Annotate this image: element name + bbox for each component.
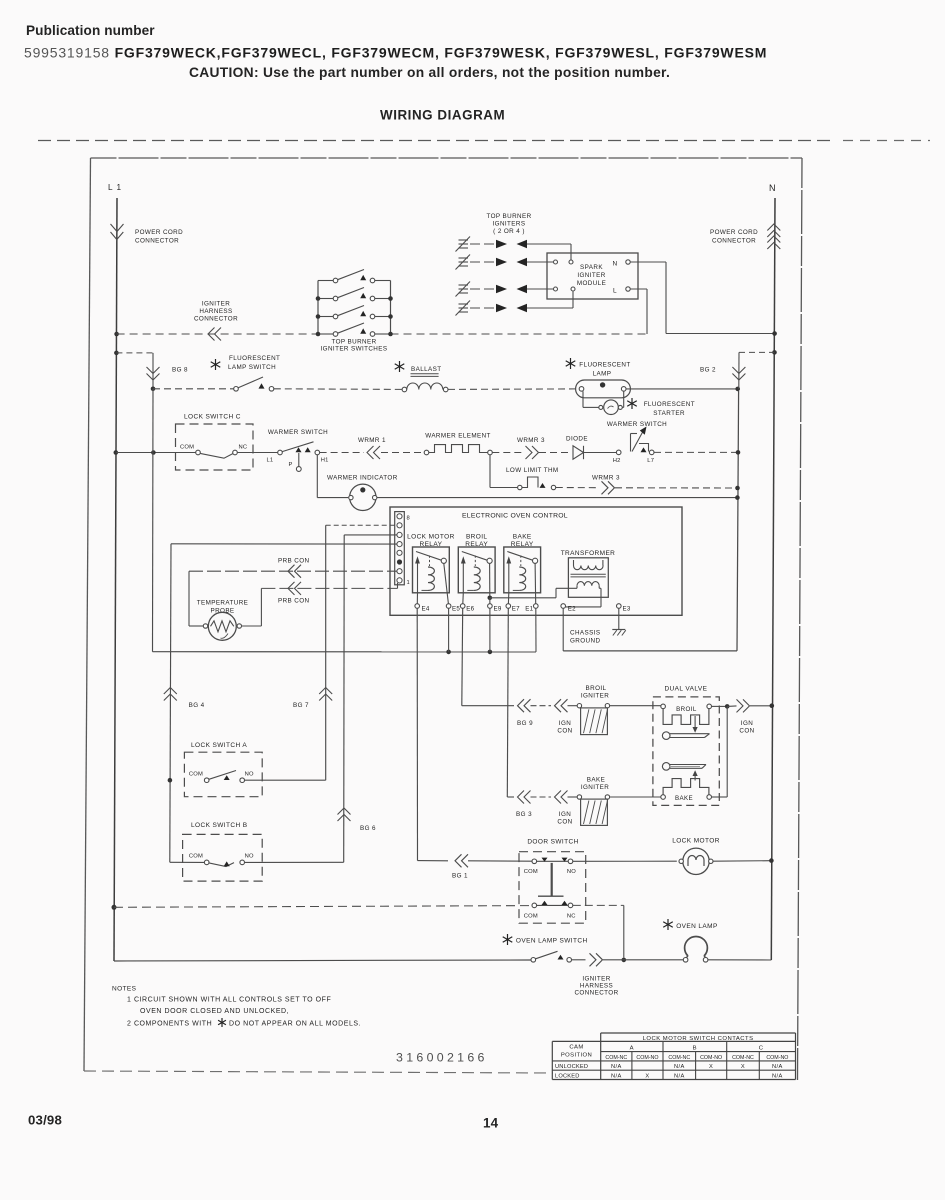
svg-text:OVEN LAMP: OVEN LAMP [676, 923, 718, 930]
wire switch to igniter harness connector [572, 959, 586, 961]
wire BG8 branch horizontal (dashed) [116, 352, 153, 354]
svg-text:POWER CORD: POWER CORD [710, 229, 758, 236]
svg-text:WARMER ELEMENT: WARMER ELEMENT [425, 433, 491, 440]
svg-text:P: P [289, 462, 293, 468]
wire bake relay contact to E1 [534, 563, 537, 603]
svg-text:DIODE: DIODE [566, 436, 588, 443]
svg-text:COM-NO: COM-NO [636, 1055, 658, 1061]
transformer T1 box [568, 558, 608, 598]
junction lock motor row x N bus [769, 858, 774, 863]
svg-text:PRB CON: PRB CON [278, 558, 310, 565]
broil valve actuator arrow [694, 716, 696, 728]
dual valve broil terminals [661, 704, 666, 709]
svg-text:LOW LIMIT THM: LOW LIMIT THM [506, 467, 559, 474]
wire N return vertical x=737.5 [737, 391, 739, 651]
svg-text:BG 2: BG 2 [700, 367, 716, 374]
svg-text:BG 6: BG 6 [360, 825, 376, 832]
svg-text:HARNESS: HARNESS [580, 983, 613, 990]
broil relay coil [474, 567, 480, 590]
wire transformer lead right [598, 586, 600, 589]
warmer element heater [424, 450, 429, 455]
junction BG8 line x lock switch C row [151, 450, 156, 455]
svg-text:Publication number: Publication number [26, 23, 155, 38]
terminal E7 [506, 604, 511, 609]
spark gap 4 [470, 307, 495, 309]
connector PRB CON upper [288, 565, 295, 578]
svg-text:FLUORESCENT: FLUORESCENT [229, 355, 280, 362]
top dashed separator line [38, 140, 833, 142]
bake relay coil [519, 567, 525, 590]
wire L1 bottom run to oven lamp switch [114, 960, 531, 961]
door switch mechanical link [551, 863, 553, 896]
svg-text:E5: E5 [452, 606, 460, 613]
svg-text:PROBE: PROBE [210, 608, 234, 615]
wire lock switch A NO to BG7 vertical [244, 779, 325, 781]
svg-text:E3: E3 [623, 606, 631, 613]
wire pin7 to BG7 drop (dashed) [326, 524, 397, 526]
lock switch C blade [200, 453, 233, 458]
lock switch B blade [209, 863, 234, 867]
fluorescent starter [604, 400, 619, 415]
asterisk ballast [399, 361, 401, 372]
top burner igniter switch 2 [318, 298, 333, 300]
svg-text:E4: E4 [422, 606, 430, 613]
wire E3 to chassis ground [618, 608, 620, 629]
svg-text:N/A: N/A [611, 1074, 622, 1080]
spark gap 2 [470, 261, 495, 263]
svg-text:L: L [613, 288, 617, 295]
wire pin6 to BG6 drop [344, 534, 397, 536]
svg-text:COM-NO: COM-NO [766, 1055, 788, 1061]
wire spark module N output to N bus [630, 261, 666, 263]
broil relay box [458, 547, 495, 593]
spark gap 1 [470, 243, 495, 245]
svg-text:BG 9: BG 9 [517, 720, 533, 727]
svg-text:NO: NO [245, 854, 254, 860]
wire igniter3 to module [527, 288, 553, 290]
warmer switch blade [282, 442, 313, 452]
svg-text:IGNITER: IGNITER [582, 976, 610, 983]
svg-text:E1: E1 [525, 606, 533, 613]
power cord connector (L1) [111, 224, 124, 232]
wire igniter1 to module top [527, 243, 571, 245]
svg-text:COM-NC: COM-NC [605, 1055, 627, 1061]
svg-text:OVEN LAMP SWITCH: OVEN LAMP SWITCH [516, 938, 588, 945]
wire IGN CON to broil igniter [568, 705, 578, 707]
svg-text:POSITION: POSITION [561, 1052, 592, 1058]
lock switch A contacts [204, 778, 209, 783]
transformer primary winding [574, 566, 604, 570]
ballast core lines [411, 373, 439, 375]
svg-text:8: 8 [407, 516, 411, 522]
svg-text:03/98: 03/98 [28, 1113, 62, 1128]
junction broil contact x E1 link [488, 596, 493, 601]
transformer core [571, 573, 606, 575]
wire WRMR3 lower to N return [615, 487, 738, 489]
warmer row contact H2 [616, 450, 621, 455]
svg-text:TOP BURNER: TOP BURNER [331, 339, 376, 346]
svg-text:BROIL: BROIL [586, 685, 607, 692]
bake valve armature [662, 763, 670, 771]
wire pin2 probe left (PRB CON) [189, 570, 397, 572]
wire bake igniter to dual valve [610, 796, 661, 798]
bake valve actuator arrow [694, 776, 696, 781]
svg-text:RELAY: RELAY [465, 541, 488, 548]
connector PRB CON lower [288, 582, 295, 595]
svg-text:IGNITER: IGNITER [581, 784, 609, 791]
svg-text:STARTER: STARTER [653, 410, 685, 417]
wire BG4 vertical (pin5 to lock switch A/B COM) [170, 544, 171, 863]
connector igniter harness (lower) [596, 953, 603, 966]
svg-text:IGN: IGN [559, 720, 571, 727]
junction E5 x feed run [446, 650, 451, 655]
svg-text:LOCK MOTOR: LOCK MOTOR [672, 838, 720, 845]
wire E6 drop to broil igniter row [461, 608, 464, 705]
wire E2 to transformer [565, 606, 601, 608]
chassis ground symbol [612, 629, 625, 631]
svg-text:LAMP SWITCH: LAMP SWITCH [228, 364, 276, 371]
wire door switch NO to lock motor [573, 860, 677, 862]
svg-text:IGNITER: IGNITER [581, 693, 609, 700]
svg-text:CAM: CAM [569, 1045, 583, 1051]
svg-text:COM: COM [524, 914, 538, 920]
asterisk oven lamp [667, 919, 669, 930]
lock switch A blade [209, 771, 236, 780]
wire E4 drop to door switch row [416, 608, 418, 860]
svg-text:2 COMPONENTS WITH: 2 COMPONENTS WITH [127, 1021, 212, 1028]
dual valve dashed box [653, 697, 719, 806]
wire lock switch B COM from BG4 vertical [170, 861, 205, 863]
wire oven lamp to N bus corner [708, 959, 772, 961]
svg-text:N/A: N/A [772, 1074, 783, 1080]
wire igniter harness bus left segment (dashed) [117, 333, 318, 335]
svg-text:CAUTION: Use the part number: CAUTION: Use the part number on all orde… [189, 65, 670, 80]
svg-text:1: 1 [407, 580, 411, 586]
svg-text:COM: COM [189, 854, 203, 860]
wire L7 to N return (dashed) [654, 451, 738, 453]
svg-text:CONNECTOR: CONNECTOR [574, 990, 618, 997]
svg-text:LAMP: LAMP [593, 370, 612, 377]
lock motor relay blade and contact [416, 552, 442, 561]
svg-text:N/A: N/A [772, 1064, 783, 1070]
asterisk oven lamp switch [507, 934, 509, 945]
bake relay blade and contact [507, 552, 533, 561]
wire warmer indicator to N return [377, 497, 737, 499]
svg-text:BAKE: BAKE [513, 534, 532, 541]
wire lamp to starter left leg [582, 391, 584, 407]
svg-text:WRMR 3: WRMR 3 [592, 475, 620, 482]
dual valve bake terminals [661, 795, 666, 800]
svg-text:CON: CON [557, 728, 572, 735]
diagram border top edge [91, 157, 803, 159]
svg-text:MODULE: MODULE [577, 280, 606, 287]
svg-text:PRB CON: PRB CON [278, 598, 310, 605]
fluorescent lamp terminals [579, 387, 584, 392]
svg-text:LOCK MOTOR SWITCH CONTACTS: LOCK MOTOR SWITCH CONTACTS [643, 1036, 754, 1042]
svg-text:X: X [709, 1064, 713, 1070]
spark igniter module U1 box [547, 253, 638, 299]
svg-text:L7: L7 [647, 458, 654, 464]
wire broil igniter to dual valve [610, 705, 661, 707]
svg-text:L1: L1 [267, 458, 274, 464]
svg-text:RELAY: RELAY [511, 541, 534, 548]
svg-text:X: X [645, 1074, 649, 1080]
wire door switch COM-NO link [537, 860, 569, 862]
wire IGN CON to N bus [750, 705, 770, 707]
warmer switch markers [296, 447, 302, 452]
svg-text:BG 1: BG 1 [452, 873, 468, 880]
svg-text:WARMER SWITCH: WARMER SWITCH [268, 429, 328, 436]
svg-text:BAKE: BAKE [587, 777, 605, 784]
wire BG7 vertical (pin7 to lock switch A NO) [325, 525, 327, 780]
wire H1 tap down to warmer indicator [316, 455, 318, 498]
junction indicator wire x N return [735, 495, 740, 500]
svg-text:DUAL VALVE: DUAL VALVE [664, 686, 707, 693]
wire E7 drop to bake igniter row [507, 608, 508, 797]
wire N bus vertical [771, 198, 775, 960]
wire L1 feed run y=652 [153, 651, 537, 653]
top burner igniter electrode 4 [459, 303, 469, 305]
junction BG4 line x lock switch A COM [168, 778, 173, 783]
svg-text:BALLAST: BALLAST [411, 366, 441, 373]
wire spark module L output to igniter bus [630, 288, 647, 290]
spark module input terminals [554, 260, 558, 264]
svg-text:B: B [693, 1045, 697, 1051]
svg-text:WIRING DIAGRAM: WIRING DIAGRAM [380, 108, 505, 123]
asterisk fluorescent starter [631, 398, 633, 409]
wire WRMR1 to warmer element (dashed) [381, 452, 424, 454]
warmer indicator lamp [350, 484, 376, 510]
wire junction to E9 [489, 598, 491, 604]
lock switch A dashed box [184, 752, 262, 797]
svg-text:BG 4: BG 4 [189, 702, 205, 709]
broil relay blade and contact [462, 552, 488, 561]
svg-text:FLUORESCENT: FLUORESCENT [579, 362, 630, 369]
top burner igniter switch 1 [318, 280, 333, 282]
svg-text:COM: COM [524, 869, 538, 875]
junction dual valve common [725, 704, 730, 709]
warmer switch 2 infinite-switch symbol [630, 434, 632, 452]
door switch lower contacts COM/NC [532, 903, 537, 908]
wire E2 run to N return [563, 650, 737, 652]
bake igniter terminals [577, 795, 581, 799]
svg-text:E9: E9 [494, 606, 502, 613]
top burner igniter electrode 2 [459, 257, 469, 259]
fluorescent starter terminals [599, 405, 603, 409]
wire lamp row to switch (dashed) [153, 388, 234, 390]
inductor ballast [402, 387, 407, 392]
table lock motor switch contacts frame [601, 1032, 796, 1034]
svg-text:TOP BURNER: TOP BURNER [486, 213, 531, 220]
svg-text:COM-NC: COM-NC [732, 1055, 754, 1061]
wire bake relay arrow to E7 [507, 593, 509, 604]
junction E9 x feed run [488, 650, 493, 655]
svg-text:H1: H1 [321, 458, 329, 464]
svg-text:IGNITER SWITCHES: IGNITER SWITCHES [321, 346, 388, 353]
power cord connector (N) [767, 224, 780, 231]
broil valve armature [662, 732, 670, 740]
svg-text:CONNECTOR: CONNECTOR [135, 238, 179, 245]
svg-text:IGNITER: IGNITER [577, 272, 605, 279]
wire door switch COM-NC link [537, 904, 569, 906]
svg-text:WARMER SWITCH: WARMER SWITCH [607, 421, 667, 428]
terminal E9 [488, 604, 493, 609]
wire L1 to lock switch C COM [116, 452, 196, 454]
fluorescent lamp filament dot [600, 382, 605, 387]
wire bake coil to common junction [712, 796, 728, 798]
svg-text:CON: CON [557, 819, 572, 826]
lock switch B dashed box [183, 834, 263, 881]
diagram border left edge [84, 158, 91, 1071]
svg-text:COM-NC: COM-NC [668, 1055, 690, 1061]
svg-text:H2: H2 [613, 458, 621, 464]
svg-text:COM: COM [189, 772, 203, 778]
svg-text:IGN: IGN [741, 720, 753, 727]
junction BG8 x lamp row [151, 387, 156, 392]
wire lock switch B NO to BG6 vertical [244, 861, 343, 863]
svg-text:X: X [741, 1064, 745, 1070]
lock switch B contacts [204, 860, 209, 865]
svg-text:E2: E2 [568, 606, 576, 613]
wire pin5 to lock switches COM drop [171, 543, 397, 545]
fluorescent lamp body [576, 380, 631, 398]
svg-text:NC: NC [239, 445, 248, 451]
connector BG 1 [418, 860, 449, 862]
wire BG2 branch horizontal (dashed) [739, 351, 775, 353]
wire switch to ballast (dashed) [274, 388, 402, 391]
wire E9-E1 link to transformer lead [490, 597, 556, 599]
connector BG 4 [164, 688, 177, 695]
svg-text:1 CIRCUIT SHOWN WITH ALL CON: 1 CIRCUIT SHOWN WITH ALL CONTROLS SET TO… [127, 997, 331, 1004]
lock motor relay box [413, 547, 450, 593]
svg-text:N: N [769, 183, 776, 193]
wire pin1 probe right (PRB CON) [261, 587, 397, 589]
wire broil row to BG9 [462, 705, 514, 707]
svg-text:BG 3: BG 3 [516, 811, 532, 818]
svg-text:COM-NO: COM-NO [700, 1055, 722, 1061]
EOC connector pins 8..1 [397, 514, 402, 519]
junction L1 x BG8 branch [114, 351, 119, 356]
oven lamp LP1 [685, 936, 708, 956]
bake igniter element (hatched) [581, 799, 608, 825]
junction lamp row x N return [735, 387, 740, 392]
wire BG9 to IGN CON [531, 705, 552, 707]
svg-text:BROIL: BROIL [676, 706, 697, 713]
svg-text:E7: E7 [512, 606, 520, 613]
svg-text:( 2 OR 4 ): ( 2 OR 4 ) [493, 228, 525, 235]
svg-text:SPARK: SPARK [580, 264, 603, 271]
wire connector to oven lamp [603, 959, 684, 961]
top burner igniter electrode 1 [459, 239, 469, 241]
terminal E3 [617, 604, 622, 609]
svg-text:NO: NO [245, 772, 254, 778]
fluorescent lamp switch S1 [234, 387, 239, 392]
temperature probe resistor [208, 612, 236, 640]
terminal E2 [561, 604, 566, 609]
asterisk fluorescent lamp [570, 358, 572, 369]
svg-text:ELECTRONIC OVEN CONTROL: ELECTRONIC OVEN CONTROL [462, 513, 568, 520]
junction door NC drop x oven lamp row [622, 958, 627, 963]
lock switch C contacts COM/NC [196, 450, 201, 455]
junction L1 x igniter bus [114, 332, 119, 337]
wire transformer lead left [576, 586, 578, 589]
svg-text:316002166: 316002166 [396, 1051, 488, 1065]
lock motor M1 [683, 848, 709, 874]
connector BG 3 [518, 791, 525, 804]
svg-text:BROIL: BROIL [466, 534, 488, 541]
spark module N terminal [626, 260, 630, 264]
diagram border right edge [798, 158, 803, 1080]
terminal E5 [446, 604, 451, 609]
svg-text:NOTES: NOTES [112, 986, 137, 993]
wire broil relay arrow to E6 [462, 593, 465, 604]
top burner igniter switch 3 [318, 316, 333, 318]
lock motor relay coil [428, 567, 434, 590]
svg-text:5995319158 FGF379WECK,FGF379WE: 5995319158 FGF379WECK,FGF379WECL, FGF379… [24, 45, 767, 61]
svg-text:L 1: L 1 [108, 183, 122, 192]
electronic oven control box [390, 507, 682, 615]
junction N bus x BG2 branch [772, 350, 777, 355]
door switch upper contacts COM/NO [532, 859, 537, 864]
wire BG1 to door switch COM [468, 860, 532, 862]
terminal E4 [415, 604, 420, 609]
connector BG 6 [338, 808, 351, 815]
svg-text:LOCK SWITCH B: LOCK SWITCH B [191, 822, 247, 829]
svg-text:TEMPERATURE: TEMPERATURE [197, 600, 249, 607]
svg-text:UNLOCKED: UNLOCKED [555, 1064, 588, 1070]
lock switch C dashed box [176, 424, 254, 470]
wire lock switch C NC to warmer switch [237, 452, 278, 454]
svg-text:E6: E6 [466, 606, 474, 613]
wire broil relay contact down [489, 563, 491, 595]
wire BG3 to IGN CON [531, 796, 552, 798]
svg-text:TRANSFORMER: TRANSFORMER [561, 550, 616, 557]
svg-text:N/A: N/A [674, 1074, 685, 1080]
svg-text:LOCKED: LOCKED [555, 1074, 580, 1080]
connector BG 8 [147, 374, 160, 381]
junction N wire x N bus [772, 331, 777, 336]
wire IGN CON to bake igniter [568, 796, 578, 798]
wire ballast to fluorescent lamp (dashed) [448, 388, 579, 391]
warmer switch contact P [298, 453, 300, 467]
warmer row marker and L7 contact [641, 447, 647, 452]
connector IGN CON broil left [555, 699, 562, 712]
warmer switch contact L1 [278, 450, 283, 455]
connector BG 7 [319, 688, 332, 695]
wire E9 drop [489, 608, 491, 652]
svg-text:OVEN DOOR CLOSED AND UNLOCKED,: OVEN DOOR CLOSED AND UNLOCKED, [140, 1008, 289, 1015]
wire door switch NC to oven lamp row [573, 904, 624, 906]
wire BG8 vertical continuation to PRB line [152, 389, 155, 652]
junction warmer row x N return [736, 450, 741, 455]
broil relay armature arrow [462, 563, 464, 593]
wire BG2 branch vertical [738, 352, 740, 389]
wire H1 to WRMR1 connector (dashed) [320, 452, 364, 454]
wire L1 bus to door switch lower COM (dashed) [112, 905, 117, 910]
svg-text:WRMR 1: WRMR 1 [358, 437, 386, 444]
wire E1 drop to feed run [535, 608, 537, 652]
top burner igniter electrode 3 [459, 284, 469, 286]
svg-text:FLUORESCENT: FLUORESCENT [644, 401, 695, 408]
svg-text:DOOR SWITCH: DOOR SWITCH [527, 839, 578, 846]
terminal E6 [460, 604, 465, 609]
broil igniter element (hatched) [581, 708, 608, 735]
bake relay box [504, 547, 541, 593]
door switch dashed box [519, 852, 586, 924]
wire igniter4 to module bottom [527, 307, 573, 309]
spark gap 3 [470, 288, 495, 290]
svg-text:WARMER INDICATOR: WARMER INDICATOR [327, 475, 398, 482]
